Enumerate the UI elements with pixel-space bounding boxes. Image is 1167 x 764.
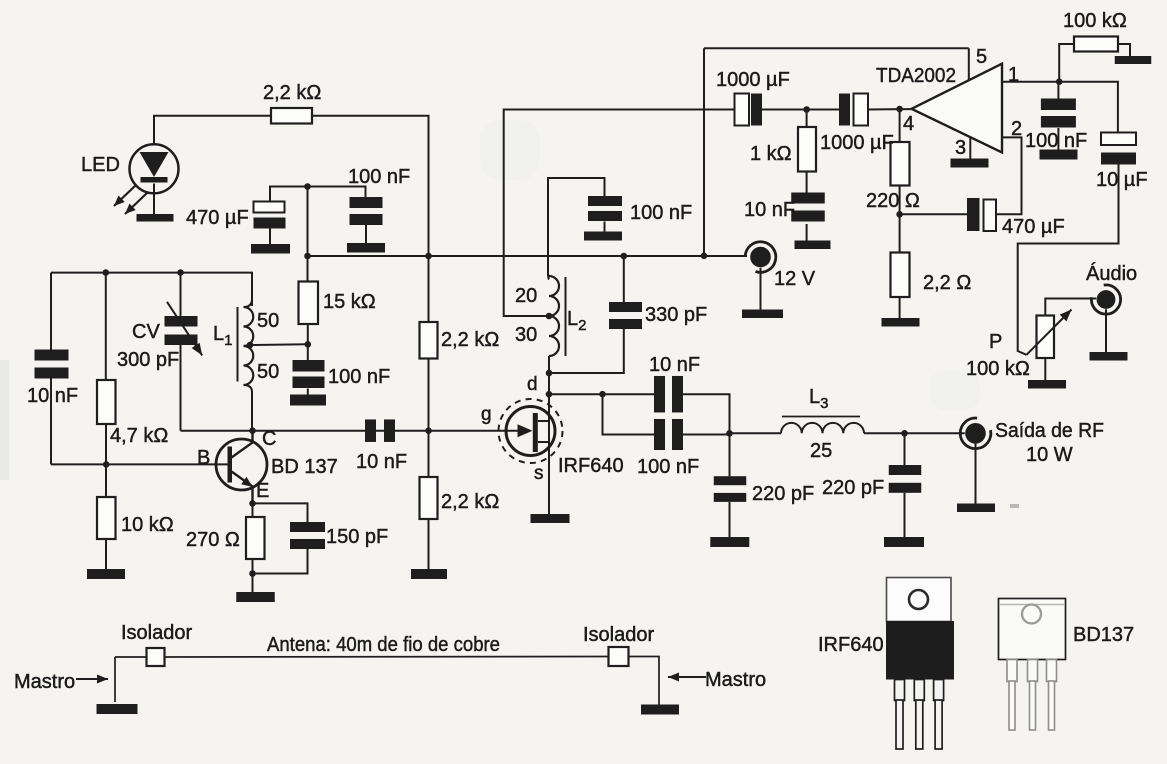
svg-text:g: g [481,404,492,425]
svg-text:2,2 kΩ: 2,2 kΩ [441,491,499,513]
svg-text:100 nF: 100 nF [348,166,410,188]
svg-text:LED: LED [81,154,120,176]
svg-text:10 nF: 10 nF [649,354,700,376]
svg-text:20: 20 [515,285,537,307]
svg-text:2: 2 [1011,118,1022,140]
svg-text:470 µF: 470 µF [1002,216,1065,238]
svg-text:10 kΩ: 10 kΩ [121,514,174,536]
svg-text:30: 30 [515,324,537,346]
svg-text:220 pF: 220 pF [822,477,884,499]
svg-text:300 pF: 300 pF [117,349,179,371]
svg-text:100 kΩ: 100 kΩ [966,358,1030,380]
svg-text:1000 µF: 1000 µF [716,69,790,91]
svg-text:470 µF: 470 µF [186,207,249,229]
svg-text:10 W: 10 W [1026,444,1073,466]
svg-text:Mastro: Mastro [705,669,766,691]
svg-text:5: 5 [976,46,987,68]
svg-text:1000 µF: 1000 µF [820,132,894,154]
svg-text:330 pF: 330 pF [645,304,707,326]
svg-text:50: 50 [257,361,279,383]
svg-text:1: 1 [1008,64,1019,86]
svg-text:2,2 Ω: 2,2 Ω [923,272,971,294]
svg-text:BD 137: BD 137 [271,456,338,478]
svg-text:TDA2002: TDA2002 [876,65,956,87]
svg-text:CV: CV [132,321,160,343]
svg-text:100 kΩ: 100 kΩ [1063,10,1127,32]
svg-text:50: 50 [257,310,279,332]
svg-text:10 nF: 10 nF [356,451,407,473]
svg-text:B: B [197,447,210,469]
svg-text:1 kΩ: 1 kΩ [750,143,792,165]
svg-text:Isolador: Isolador [121,622,192,644]
svg-text:10 nF: 10 nF [27,385,78,407]
svg-text:C: C [262,428,276,450]
svg-text:4: 4 [903,113,914,135]
svg-text:100 nF: 100 nF [630,202,692,224]
svg-text:Isolador: Isolador [583,624,654,646]
svg-text:100 nF: 100 nF [637,456,699,478]
svg-text:d: d [527,374,538,395]
svg-text:12 V: 12 V [774,268,816,290]
svg-text:IRF640: IRF640 [818,634,884,656]
svg-text:E: E [256,480,269,502]
svg-text:150 pF: 150 pF [326,526,388,548]
svg-text:100 nF: 100 nF [1025,130,1087,152]
svg-text:2,2 kΩ: 2,2 kΩ [441,329,499,351]
svg-text:100 nF: 100 nF [328,366,390,388]
svg-text:P: P [989,331,1002,353]
svg-text:270 Ω: 270 Ω [186,529,240,551]
svg-text:10 nF: 10 nF [744,199,795,221]
svg-text:3: 3 [955,137,966,159]
svg-text:220 Ω: 220 Ω [866,190,920,212]
svg-text:Áudio: Áudio [1086,262,1137,285]
svg-text:BD137: BD137 [1073,624,1134,646]
svg-text:s: s [534,463,544,484]
svg-text:15 kΩ: 15 kΩ [323,291,376,313]
svg-text:Mastro: Mastro [14,671,75,693]
svg-text:Antena: 40m de fio de cobre: Antena: 40m de fio de cobre [267,634,500,656]
svg-text:Saída de RF: Saída de RF [995,420,1104,442]
svg-text:2,2 kΩ: 2,2 kΩ [263,82,321,104]
svg-text:220 pF: 220 pF [752,483,814,505]
svg-text:IRF640: IRF640 [558,455,624,477]
svg-text:25: 25 [810,440,832,462]
svg-text:10 µF: 10 µF [1096,169,1148,191]
svg-text:4,7 kΩ: 4,7 kΩ [110,425,168,447]
